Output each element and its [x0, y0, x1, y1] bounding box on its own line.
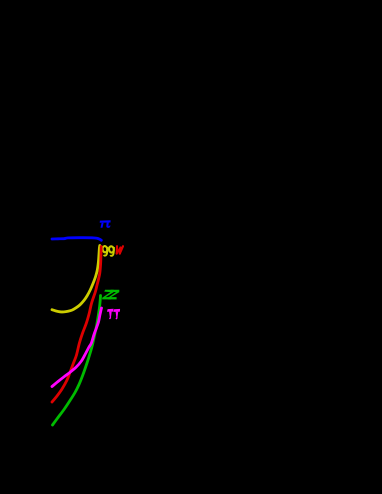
label ZZ (green)	[102, 290, 119, 300]
yellow curve (gg)	[52, 246, 100, 312]
green curve (ZZ)	[53, 296, 101, 426]
red curve (W)	[52, 247, 101, 403]
magenta curve (tau tau)	[52, 308, 102, 387]
label tau-tau (magenta)	[107, 309, 120, 320]
label W (red)	[117, 246, 123, 253]
blue curve (flat line, top)	[52, 238, 101, 241]
label pi (blue)	[100, 220, 111, 228]
label gg (yellow)	[102, 246, 114, 256]
